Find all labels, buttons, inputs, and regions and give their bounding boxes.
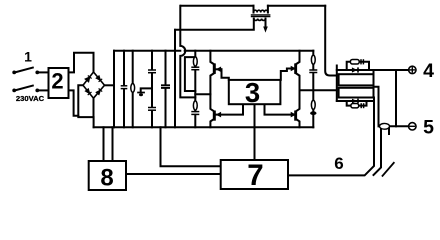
svg-text:230VAC: 230VAC bbox=[16, 94, 45, 103]
svg-text:5: 5 bbox=[423, 116, 434, 138]
svg-text:7: 7 bbox=[247, 159, 263, 192]
svg-text:1: 1 bbox=[24, 49, 32, 65]
svg-text:3: 3 bbox=[245, 77, 260, 108]
svg-text:4: 4 bbox=[423, 60, 434, 82]
svg-text:6: 6 bbox=[334, 154, 343, 173]
svg-text:2: 2 bbox=[51, 69, 63, 94]
svg-text:8: 8 bbox=[100, 164, 113, 191]
